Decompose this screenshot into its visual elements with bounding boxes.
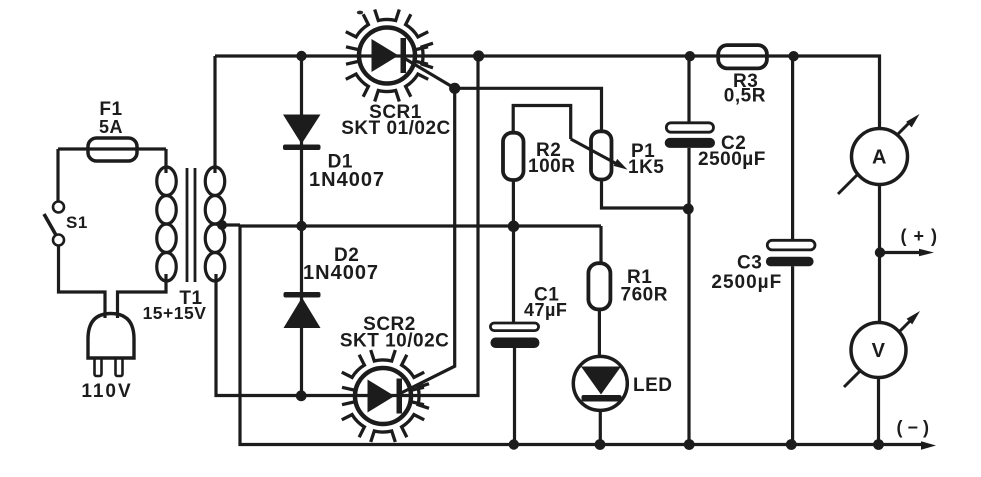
svg-text:SKT 01/02C: SKT 01/02C — [341, 118, 451, 139]
svg-text:(−): (−) — [897, 418, 935, 438]
svg-text:2500µF: 2500µF — [711, 272, 782, 293]
svg-text:SKT 10/02C: SKT 10/02C — [340, 331, 450, 352]
svg-text:1K5: 1K5 — [628, 157, 664, 178]
svg-text:1N4007: 1N4007 — [303, 262, 379, 284]
svg-text:C3: C3 — [737, 253, 762, 274]
svg-text:V: V — [872, 340, 886, 362]
svg-text:LED: LED — [633, 375, 673, 396]
svg-text:110V: 110V — [81, 381, 132, 402]
svg-text:47µF: 47µF — [524, 300, 567, 320]
svg-text:760R: 760R — [621, 285, 668, 306]
svg-text:S1: S1 — [66, 213, 88, 232]
svg-text:1N4007: 1N4007 — [309, 169, 385, 191]
svg-text:2500µF: 2500µF — [698, 149, 766, 170]
svg-text:5A: 5A — [99, 117, 123, 137]
svg-text:(+): (+) — [901, 226, 945, 246]
svg-text:100R: 100R — [528, 156, 575, 177]
svg-text:A: A — [872, 147, 887, 169]
svg-text:0,5R: 0,5R — [724, 86, 766, 107]
svg-text:15+15V: 15+15V — [143, 303, 207, 323]
